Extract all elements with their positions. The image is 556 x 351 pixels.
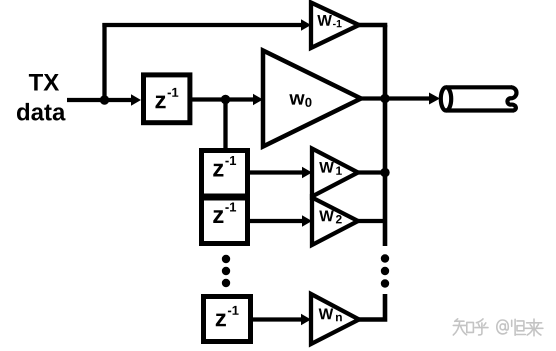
wire z1 to w0 (192, 94, 263, 105)
node w1 bus junction (380, 168, 389, 177)
node w0 bus junction (380, 94, 389, 103)
wire w1 to bus (358, 170, 385, 174)
delay z3 (202, 198, 248, 244)
wire w-1 to bus (359, 23, 387, 28)
wire z2 to w1 (250, 167, 312, 178)
wire tap up (102, 23, 106, 100)
bus vertical (383, 25, 388, 246)
delay z1 (144, 75, 190, 123)
delay z4 (204, 297, 251, 342)
amp wn (311, 294, 359, 344)
amp w2 (312, 198, 358, 246)
label TX data (17, 74, 66, 121)
wire z4 to wn (253, 314, 311, 325)
ellipsis left (222, 255, 230, 287)
node tap2 junction (221, 95, 230, 104)
amp w0 (263, 51, 361, 147)
wire tap2 down (223, 100, 227, 151)
wire input (67, 94, 141, 105)
wire w0 to bus (361, 96, 385, 100)
wire bus to channel (385, 93, 440, 105)
wire w2 to bus (358, 219, 385, 223)
amp w-1 (311, 3, 359, 49)
wire top tap (102, 19, 311, 30)
delay z2 (202, 151, 248, 197)
ellipsis bus (381, 254, 389, 287)
watermark zhihu (453, 319, 543, 336)
amp w1 (312, 149, 358, 197)
wire bus bottom to wn (359, 294, 385, 320)
wire z3 to w2 (250, 215, 312, 226)
node input junction (100, 95, 109, 104)
channel cylinder (441, 87, 517, 110)
